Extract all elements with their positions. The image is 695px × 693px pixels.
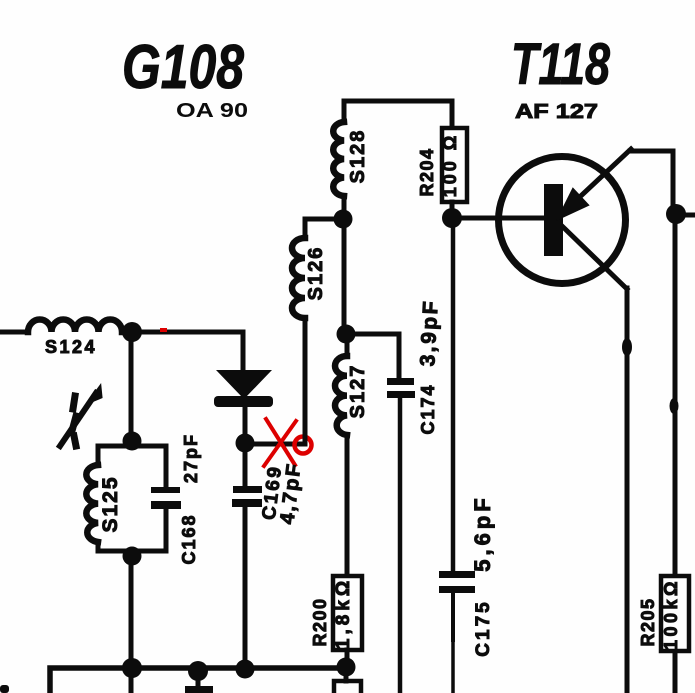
wire S124-node down to tank [129, 342, 134, 432]
inductor S128 lead bottom [342, 196, 347, 210]
svg-text:S125: S125 [99, 475, 122, 532]
svg-text:S124: S124 [45, 337, 97, 357]
wire top rail [344, 101, 452, 127]
resistor R200 [333, 576, 362, 650]
label 4,7pF [276, 461, 305, 525]
inductor S127 [335, 356, 347, 435]
label S125 [99, 475, 122, 532]
wire C174 bottom [398, 398, 403, 693]
wire diode cathode [243, 407, 248, 434]
wire below rail x132 [129, 676, 134, 693]
wire diode node to S126 [245, 442, 305, 447]
label OA 90 [176, 100, 248, 122]
node S128 bottom [334, 210, 353, 229]
wire emitter column [673, 223, 678, 575]
node rail x245 [236, 660, 255, 679]
label C174 [418, 383, 438, 434]
corner blob bottom left [0, 685, 9, 693]
wire tank top-right [132, 446, 166, 488]
wire tank bottom-right [140, 509, 166, 551]
wire base [462, 216, 546, 221]
wire S126 branch [305, 219, 336, 238]
svg-text:C174: C174 [418, 383, 438, 434]
node rail x198 [188, 661, 208, 681]
wire stub to right edge [686, 213, 695, 218]
svg-text:1,8kΩ: 1,8kΩ [333, 577, 354, 649]
label S127 [347, 364, 369, 419]
wire tank bottom to rail [129, 565, 134, 660]
inductor S124 [28, 320, 122, 333]
wire R204 bottom [450, 202, 455, 209]
wire S127 lead [345, 343, 350, 356]
node tank bottom [123, 547, 142, 566]
wire C169 bottom [243, 507, 248, 660]
svg-text:5,6pF: 5,6pF [470, 494, 495, 571]
wire ground rail [50, 668, 346, 693]
wire node to diode anode [132, 332, 243, 371]
label R205 [638, 597, 658, 646]
label C169 [259, 464, 287, 522]
resistor R205 [661, 576, 689, 651]
wire tank top-left [98, 446, 132, 465]
node tank top [123, 432, 142, 451]
svg-text:27pF: 27pF [181, 433, 201, 483]
red circle annotation [295, 437, 312, 454]
label S126 [305, 246, 327, 301]
wire below R205 [673, 652, 678, 693]
label AF 127 [515, 101, 598, 123]
svg-text:S127: S127 [347, 364, 369, 419]
svg-text:R200: R200 [310, 597, 330, 646]
node diode junction [236, 434, 255, 453]
svg-text:100kΩ: 100kΩ [661, 578, 681, 650]
svg-text:S128: S128 [347, 129, 369, 184]
title G108 [122, 33, 244, 102]
svg-text:C175: C175 [473, 599, 494, 656]
transistor T118 body [499, 157, 626, 284]
resistor R204 [442, 128, 467, 202]
trimmer arrow annotation [60, 387, 101, 446]
transistor emitter arrow [558, 149, 631, 219]
scan smudge on collector line [622, 338, 632, 356]
wire base column down [451, 228, 456, 571]
wire C174 branch [355, 334, 399, 378]
wire main vertical [342, 228, 347, 326]
label 5,6pF [470, 494, 495, 571]
svg-text:3,9pF: 3,9pF [416, 298, 442, 366]
svg-text:R205: R205 [638, 597, 658, 646]
label R204 value [440, 133, 460, 197]
label R205 value [661, 578, 681, 650]
label R200 value [333, 577, 354, 649]
diode G108 [214, 370, 273, 407]
node rail x346 [337, 658, 356, 677]
transistor base bar [544, 184, 563, 256]
red mark on wire [160, 328, 167, 332]
title T118 [511, 32, 611, 97]
label S124 [45, 337, 97, 357]
svg-text:S126: S126 [305, 246, 327, 301]
svg-text:100 Ω: 100 Ω [440, 133, 460, 197]
wire below C175 [451, 593, 455, 693]
label S128 [347, 129, 369, 184]
wire emitter top [630, 151, 673, 204]
node S127 top [337, 325, 356, 344]
wire C169 top [243, 452, 248, 487]
svg-text:C168: C168 [179, 513, 199, 564]
component stub below rail x346 [334, 676, 361, 693]
capacitor C175 [439, 571, 475, 593]
component stub below rail x198 [185, 678, 213, 693]
svg-text:R204: R204 [417, 147, 437, 196]
inductor S126 [292, 238, 305, 318]
capacitor C169 [232, 486, 262, 507]
node antenna junction [122, 322, 142, 342]
node emitter junction [666, 204, 686, 224]
wire collector down [625, 288, 630, 693]
inductor S128 [333, 122, 344, 196]
svg-text:T118: T118 [511, 32, 611, 97]
transistor collector line [562, 226, 627, 289]
scan smudge on emitter column [670, 398, 679, 414]
wire S126 bottom to red-X wire [303, 318, 308, 444]
label R200 [310, 597, 330, 646]
label R204 [417, 147, 437, 196]
wire R200 bottom [345, 650, 350, 660]
label 27pF [181, 433, 201, 483]
label 3,9pF [416, 298, 442, 366]
node rail x132 [122, 658, 142, 678]
wire tank bottom-left [98, 542, 132, 551]
svg-text:AF 127: AF 127 [515, 101, 598, 123]
svg-text:G108: G108 [122, 33, 244, 102]
wire input left [0, 330, 28, 335]
inductor S125 [86, 465, 98, 542]
red X annotation [264, 419, 296, 466]
capacitor C174 [387, 378, 415, 398]
svg-text:OA 90: OA 90 [176, 100, 248, 122]
label C175 [473, 599, 494, 656]
label C168 [179, 513, 199, 564]
wire S127 to R200 [345, 435, 350, 575]
capacitor C168 [151, 487, 181, 509]
node base junction [442, 208, 462, 228]
